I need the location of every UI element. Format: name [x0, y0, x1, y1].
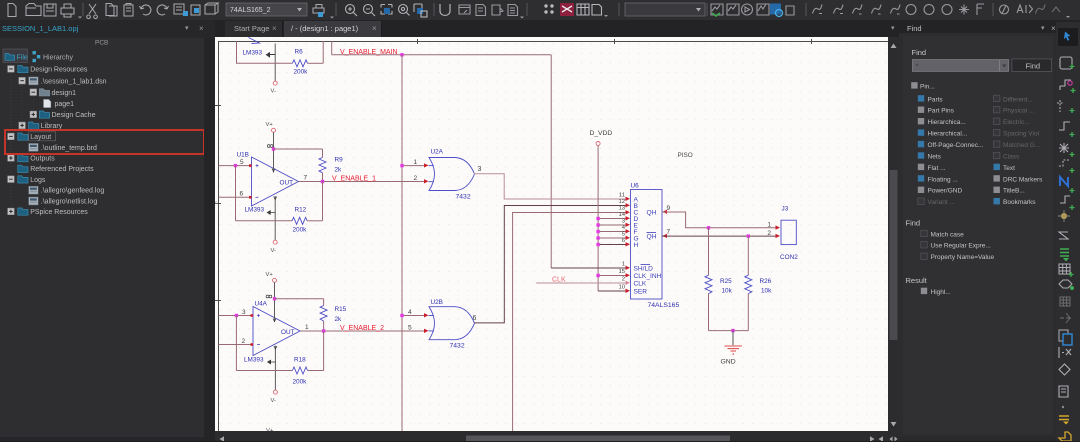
svg-text:5: 5 — [240, 159, 244, 166]
svg-text:V_ENABLE_1: V_ENABLE_1 — [332, 176, 376, 183]
tree row: .\allegro\genfeed.log — [29, 186, 105, 194]
resistor R12 — [292, 217, 307, 224]
wire QH- (pin7) to J3 pin2 — [662, 235, 777, 237]
pin letters A-H — [634, 197, 662, 296]
svg-text:Find: Find — [912, 48, 927, 57]
junction R25 tap — [707, 226, 710, 229]
op-amp U4A — [253, 307, 300, 356]
red annotation rectangle — [5, 130, 204, 154]
svg-text:2: 2 — [414, 175, 418, 182]
wire U4A pin2 input — [219, 344, 254, 346]
pin-8 marker U1B — [267, 145, 273, 148]
svg-text:Matched G...: Matched G... — [1003, 142, 1040, 149]
overline SH/LD and QH pin7 — [641, 264, 651, 266]
resistor R15 — [323, 299, 325, 306]
svg-text:1: 1 — [305, 324, 309, 331]
resistor R25 — [708, 228, 710, 275]
wire U4A feedback left vertical — [235, 316, 237, 371]
svg-text:LM393: LM393 — [244, 357, 264, 364]
svg-text:Spacing Viol: Spacing Viol — [1003, 131, 1040, 138]
wire U1B pin6 input — [219, 196, 252, 198]
pin square U1B pin6 — [249, 196, 252, 199]
pin square U4A pin2 — [251, 343, 254, 346]
tree row: Referenced Projects — [18, 165, 94, 173]
resistor R26 — [747, 236, 749, 275]
wire main vertical V_ENABLE_MAIN bus — [401, 55, 403, 431]
svg-text:OUT: OUT — [280, 180, 294, 187]
pin square U1B pin5 — [249, 164, 252, 167]
svg-text:Class: Class — [1003, 153, 1020, 160]
tree row: PSpice Resources — [8, 208, 89, 216]
svg-text:9: 9 — [667, 205, 671, 212]
wire U2B output to pin B — [474, 206, 627, 323]
pin arrows 74ALS165 D-H, SH/LD, CLK_INH, CLK, SER — [626, 216, 631, 293]
pin arrow 74ALS165 A — [626, 197, 631, 201]
find button — [1012, 59, 1052, 72]
page border frame — [215, 39, 888, 431]
svg-text:10: 10 — [618, 285, 625, 291]
wire C input from bottom — [513, 213, 627, 432]
svg-text:6: 6 — [473, 315, 477, 322]
junctions on D_VDD line — [596, 217, 599, 277]
svg-text:TitleB...: TitleB... — [1003, 188, 1025, 195]
svg-text:Result: Result — [906, 276, 928, 285]
svg-text:Floating ...: Floating ... — [928, 176, 959, 183]
svg-text:11: 11 — [619, 193, 625, 199]
svg-text:Use Regular Expre...: Use Regular Expre... — [931, 243, 992, 250]
svg-text:2k: 2k — [335, 316, 343, 323]
svg-text:3: 3 — [478, 166, 482, 173]
svg-text:Hierarchical...: Hierarchical... — [928, 131, 968, 138]
pin arrow 74ALS165 C — [626, 210, 631, 214]
wire V_ENABLE_MAIN horizontal — [332, 54, 552, 56]
tree row: Logs — [8, 176, 46, 184]
svg-text:7: 7 — [667, 229, 671, 236]
junction U4A pin3 / feedback — [235, 314, 238, 317]
wire V+ to R15 top — [275, 298, 324, 300]
svg-text:Logs: Logs — [30, 177, 46, 184]
wire V+ to R9 top — [274, 148, 323, 150]
wire SH/LD feed vertical — [550, 55, 552, 268]
svg-text:J3: J3 — [782, 206, 789, 213]
svg-text:V+: V+ — [266, 272, 274, 278]
svg-text:Find: Find — [906, 219, 921, 228]
svg-text:Match case: Match case — [931, 231, 965, 238]
File tab — [3, 49, 28, 63]
svg-text:.\allegro\netlist.log: .\allegro\netlist.log — [41, 198, 98, 205]
svg-text:7: 7 — [304, 175, 308, 182]
wire U4A output V_ENABLE_2 — [300, 330, 425, 332]
wire U4A pin3 input — [219, 315, 254, 317]
svg-text:14: 14 — [618, 212, 625, 218]
or-gate U2B — [429, 307, 475, 340]
svg-text:R25: R25 — [720, 278, 732, 285]
svg-text:Layout: Layout — [30, 134, 51, 141]
power V- symbol (U1B) — [274, 196, 276, 240]
svg-text:1: 1 — [622, 262, 625, 268]
svg-text:Find: Find — [1026, 61, 1041, 70]
wire U1B output V_ENABLE_1 — [299, 181, 426, 183]
wire SH/LD — [551, 267, 626, 269]
svg-text:7432: 7432 — [456, 194, 471, 201]
svg-text:CLK_INH: CLK_INH — [634, 273, 662, 280]
pin arrows right side of U6 — [663, 210, 668, 214]
svg-text:Flat ...: Flat ... — [928, 165, 946, 172]
svg-text:74ALS165_2: 74ALS165_2 — [230, 7, 271, 14]
junction main vertical / U2B pin4 — [400, 314, 403, 317]
svg-text:10k: 10k — [722, 288, 733, 295]
wire U2B pin4 from main vertical — [402, 315, 425, 317]
wire feedback box bottom-right (U1A) — [308, 62, 324, 64]
svg-text:3: 3 — [622, 219, 626, 225]
junction U4A V+ / R15 — [273, 297, 276, 300]
junction main vertical / U2A pin1 — [400, 164, 403, 167]
svg-text:6: 6 — [622, 238, 626, 244]
svg-text:Different...: Different... — [1003, 96, 1033, 103]
wire R12 to output — [307, 220, 322, 222]
wire U1B pin5 input — [219, 165, 252, 167]
tree row: Layout — [8, 132, 56, 141]
pin numbers left — [618, 193, 625, 291]
junction R9/R12 on output — [321, 180, 324, 183]
svg-text:SER: SER — [634, 289, 648, 296]
svg-text:Referenced Projects: Referenced Projects — [30, 166, 94, 173]
or-gate U2A — [429, 158, 475, 191]
svg-text:R9: R9 — [335, 157, 344, 164]
svg-text:LM393: LM393 — [243, 50, 263, 57]
wire U1B feedback left vertical — [235, 166, 237, 221]
resistor R9 — [322, 149, 324, 157]
pin-4 marker U1A — [267, 53, 276, 57]
svg-text:V-: V- — [271, 248, 277, 254]
svg-text:Property Name=Value: Property Name=Value — [931, 254, 995, 261]
svg-text:CLK: CLK — [552, 277, 566, 284]
svg-text:Nets: Nets — [928, 153, 942, 160]
wire feedback box right (U1A) — [322, 41, 324, 63]
svg-text:Parts: Parts — [928, 96, 944, 103]
wire QH (pin9) to J3 pin1 — [662, 212, 777, 228]
svg-text:QH: QH — [647, 210, 657, 217]
tree row: Outputs — [8, 155, 56, 163]
wire U2A output — [474, 174, 627, 199]
svg-text:H: H — [634, 242, 639, 249]
svg-text:Hierarchy: Hierarchy — [43, 55, 73, 62]
tree row: .\outline_temp.brd — [29, 143, 97, 151]
svg-text:U2A: U2A — [431, 149, 444, 156]
svg-text:2: 2 — [622, 277, 625, 283]
junction R26 tap — [747, 234, 750, 237]
empty combo — [625, 3, 705, 16]
svg-text:V-: V- — [271, 89, 277, 95]
svg-text:Library: Library — [41, 123, 63, 130]
svg-text:Design Cache: Design Cache — [52, 112, 96, 119]
power V- symbol (U1A) — [273, 81, 277, 85]
svg-text:R26: R26 — [760, 278, 772, 285]
svg-text:R15: R15 — [335, 306, 347, 313]
svg-text:V-: V- — [271, 398, 277, 404]
svg-text:Design Resources: Design Resources — [30, 67, 88, 74]
pin arrow U2A pin1 — [424, 163, 429, 167]
svg-text:OUT: OUT — [281, 329, 295, 336]
wire U1A V- stem — [274, 44, 276, 82]
wire U4A feedback bottom — [236, 370, 292, 372]
Hierarchy tab — [33, 51, 36, 54]
svg-text:1: 1 — [767, 222, 771, 229]
svg-text:U4A: U4A — [255, 301, 268, 308]
tree row: design1 — [30, 89, 76, 97]
wire CLK — [536, 282, 626, 284]
tree row: Design Cache — [30, 111, 96, 119]
svg-text:Physical ...: Physical ... — [1003, 108, 1035, 115]
pin arrow U2B pin5 — [424, 329, 429, 333]
svg-text:R18: R18 — [294, 357, 306, 364]
wire feedback box bottom-left (U1A) — [236, 62, 292, 64]
svg-text:Variant ...: Variant ... — [928, 199, 956, 206]
svg-text:U2B: U2B — [431, 299, 443, 306]
wire R18 to output — [308, 370, 324, 372]
svg-text:GND: GND — [721, 359, 736, 366]
svg-text:.\session_1_lab1.dsn: .\session_1_lab1.dsn — [41, 78, 107, 85]
wire R25/R26 bottom join — [709, 330, 749, 332]
junction GND tap — [731, 329, 734, 332]
pin arrows J3 — [776, 225, 781, 229]
part combo — [226, 3, 307, 16]
power V- symbol (U4A) — [274, 346, 276, 391]
svg-text:Hierarchica...: Hierarchica... — [928, 119, 966, 126]
wire U1B V+ stem — [273, 132, 275, 172]
svg-text:CON2: CON2 — [780, 254, 798, 261]
pin square U4A pin3 — [251, 314, 254, 317]
junction U1B V+ / R9 — [272, 147, 275, 150]
connector J3 body — [781, 220, 796, 244]
wire U1B feedback bottom — [236, 220, 293, 222]
resistor R18 — [292, 367, 307, 374]
svg-text:200k: 200k — [294, 69, 309, 76]
ground GND symbol — [732, 331, 734, 346]
svg-text:QH: QH — [647, 234, 657, 241]
svg-text:PISO: PISO — [678, 152, 693, 159]
tree row: .\session_1_lab1.dsn — [19, 77, 107, 85]
svg-text:2: 2 — [242, 338, 246, 345]
svg-text:Part Pins: Part Pins — [928, 108, 955, 115]
svg-text:5: 5 — [622, 232, 626, 238]
svg-text:Highl...: Highl... — [931, 289, 951, 296]
wire U4A V+ stem — [274, 282, 276, 322]
svg-text:2k: 2k — [335, 167, 343, 174]
pin arrow U2B pin4 — [424, 313, 429, 317]
svg-text:Electric...: Electric... — [1003, 119, 1030, 126]
pin-8 marker U4A — [266, 295, 272, 298]
tree row: page1 — [44, 99, 75, 108]
svg-text:Off-Page-Connec...: Off-Page-Connec... — [928, 142, 984, 149]
IC U6 74ALS165 body — [631, 190, 663, 300]
svg-text:5: 5 — [408, 325, 412, 332]
junction U1B pin5 / feedback — [234, 164, 237, 167]
pin arrow 74ALS165 B — [626, 203, 631, 207]
tree row: Design Resources — [8, 66, 88, 74]
svg-text:SH/LD: SH/LD — [634, 266, 654, 273]
pin arrow CLK (pale) — [626, 281, 631, 285]
svg-text:LM393: LM393 — [245, 207, 265, 214]
svg-text:2: 2 — [767, 230, 771, 237]
svg-text:6: 6 — [240, 191, 244, 198]
junction R15/R18 on output — [322, 329, 325, 332]
op-amp U1B — [252, 157, 299, 206]
svg-text:CLK: CLK — [634, 281, 647, 288]
svg-text:D_VDD: D_VDD — [590, 130, 613, 137]
svg-text:4: 4 — [408, 309, 412, 316]
svg-text:page1: page1 — [55, 101, 75, 108]
svg-text:.\outline_temp.brd: .\outline_temp.brd — [41, 145, 97, 152]
svg-text:*: * — [916, 62, 919, 71]
wire V_ENABLE_MAIN vertical stub — [331, 41, 333, 55]
tree row: Library — [19, 122, 63, 130]
svg-text:U1B: U1B — [237, 152, 249, 159]
svg-text:R6: R6 — [295, 49, 304, 56]
svg-text:10k: 10k — [761, 288, 772, 295]
wires D_VDD to pins D-H — [598, 219, 626, 292]
svg-text:Pin...: Pin... — [920, 83, 935, 90]
svg-text:PCB: PCB — [95, 40, 108, 47]
svg-text:DRC Markers: DRC Markers — [1003, 176, 1043, 183]
svg-text:4: 4 — [622, 225, 626, 231]
search combo — [912, 60, 1008, 72]
checkbox grid — [911, 82, 1043, 206]
op-amp U1A (partial, clipped at top) — [249, 38, 260, 44]
svg-text:Bookmarks: Bookmarks — [1003, 199, 1036, 206]
svg-text:File: File — [17, 55, 28, 62]
junction V_ENABLE_MAIN / main vertical — [400, 53, 403, 56]
svg-text:3: 3 — [242, 309, 246, 316]
svg-text:Power/GND: Power/GND — [928, 188, 963, 195]
svg-text:U6: U6 — [631, 183, 640, 190]
svg-text:12: 12 — [618, 199, 625, 205]
wire U2A pin1 from main vertical — [402, 165, 425, 167]
svg-text:7432: 7432 — [450, 343, 465, 350]
wire feedback box left (U1A) — [236, 41, 238, 63]
resistor R6 — [292, 60, 307, 67]
svg-text:PSpice Resources: PSpice Resources — [30, 209, 88, 216]
svg-text:13: 13 — [618, 206, 625, 212]
svg-text:Outputs: Outputs — [30, 156, 55, 163]
svg-text:74ALS165: 74ALS165 — [648, 302, 680, 309]
svg-text:R12: R12 — [295, 207, 307, 214]
svg-text:design1: design1 — [52, 90, 77, 97]
svg-text:.\allegro\genfeed.log: .\allegro\genfeed.log — [41, 188, 105, 195]
svg-text:15: 15 — [618, 269, 625, 275]
wire D_VDD vertical — [597, 146, 599, 292]
svg-text:Text: Text — [1003, 165, 1015, 172]
tree row: .\allegro\netlist.log — [29, 197, 98, 205]
svg-text:200k: 200k — [293, 227, 308, 234]
svg-text:200k: 200k — [293, 379, 308, 386]
svg-text:1: 1 — [414, 159, 418, 166]
svg-text:V+: V+ — [266, 122, 274, 128]
svg-text:V_ENABLE_2: V_ENABLE_2 — [340, 325, 384, 332]
pin arrow U2A pin2 — [424, 179, 429, 183]
